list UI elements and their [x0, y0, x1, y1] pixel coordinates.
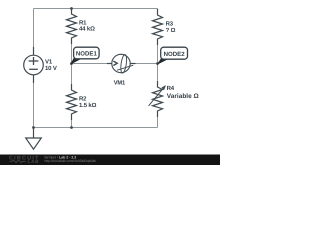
- svg-text:NODE2: NODE2: [164, 51, 186, 58]
- svg-text:NODE1: NODE1: [76, 51, 98, 58]
- svg-text:? Ω: ? Ω: [166, 27, 176, 34]
- svg-text:Variable Ω: Variable Ω: [167, 93, 199, 100]
- svg-text:1.5 kΩ: 1.5 kΩ: [79, 102, 97, 109]
- svg-text:44 kΩ: 44 kΩ: [79, 25, 95, 32]
- svg-text:VM1: VM1: [114, 79, 126, 86]
- svg-text:R4: R4: [167, 85, 175, 92]
- svg-text:V1: V1: [45, 58, 53, 65]
- svg-text:10 V: 10 V: [45, 65, 57, 72]
- svg-text:LAB: LAB: [28, 159, 40, 164]
- svg-text:R2: R2: [79, 95, 87, 102]
- svg-text:http://circuitlab.com/c8r35462: http://circuitlab.com/c8r35462q604b: [45, 159, 97, 163]
- svg-text:R3: R3: [166, 20, 174, 27]
